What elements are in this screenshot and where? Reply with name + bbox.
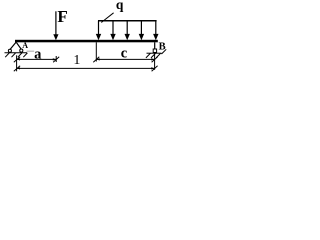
dim tick slash at x96 upper [93,57,99,63]
dimension line a [17,58,57,60]
support B ground line [147,52,162,54]
svg-text:c: c [121,46,128,62]
dim arrow left at l start [17,67,20,69]
dim tick slash at x154 upper [152,57,158,63]
extension line under F (x=56) [55,56,57,62]
load leader line [101,13,113,23]
dimension line c [96,58,154,60]
dim tick slash at x16.6 upper [14,57,20,63]
support A right roller [20,49,23,52]
dim arrow right at c end [151,58,154,60]
load arrow 4 [140,21,142,35]
svg-text:1: 1 [73,53,80,68]
faint artifact bar [27,51,35,53]
svg-text:a: a [34,46,42,62]
support A triangle [10,42,21,49]
support A ground line [5,52,28,54]
distributed load top line [98,20,157,22]
load arrow 1 [98,21,100,35]
extension line right (x=154.6) [154,54,156,70]
svg-text:A: A [22,41,28,50]
load arrow 2 [112,21,114,35]
dim arrow left at a start [17,58,20,60]
load arrow 5 [155,21,157,35]
support A ground hatches [5,53,27,57]
dim tick slash at x16.6 lower [14,66,20,72]
dimension line l [17,67,155,69]
support B stem [154,42,156,49]
svg-text:F: F [57,7,67,26]
dim arrow right at l end [151,67,154,69]
extension line left (x=16.6) [16,55,18,71]
force F arrow stem [55,11,57,35]
load arrow 3 [126,21,128,35]
support B roller [153,49,156,53]
extension line at load start (x=96.3) [95,42,97,61]
support A left roller [8,49,11,52]
dim tick slash at x154 lower [152,66,158,72]
svg-text:B: B [159,41,166,52]
dim tick slash at x56 upper [53,57,59,63]
svg-text:q: q [116,0,124,12]
dim arrow left at c start [96,58,99,60]
support B ground hatches [146,49,166,58]
beam [15,40,158,43]
force F arrowhead [53,34,58,40]
dim arrow right at a end [53,58,56,60]
